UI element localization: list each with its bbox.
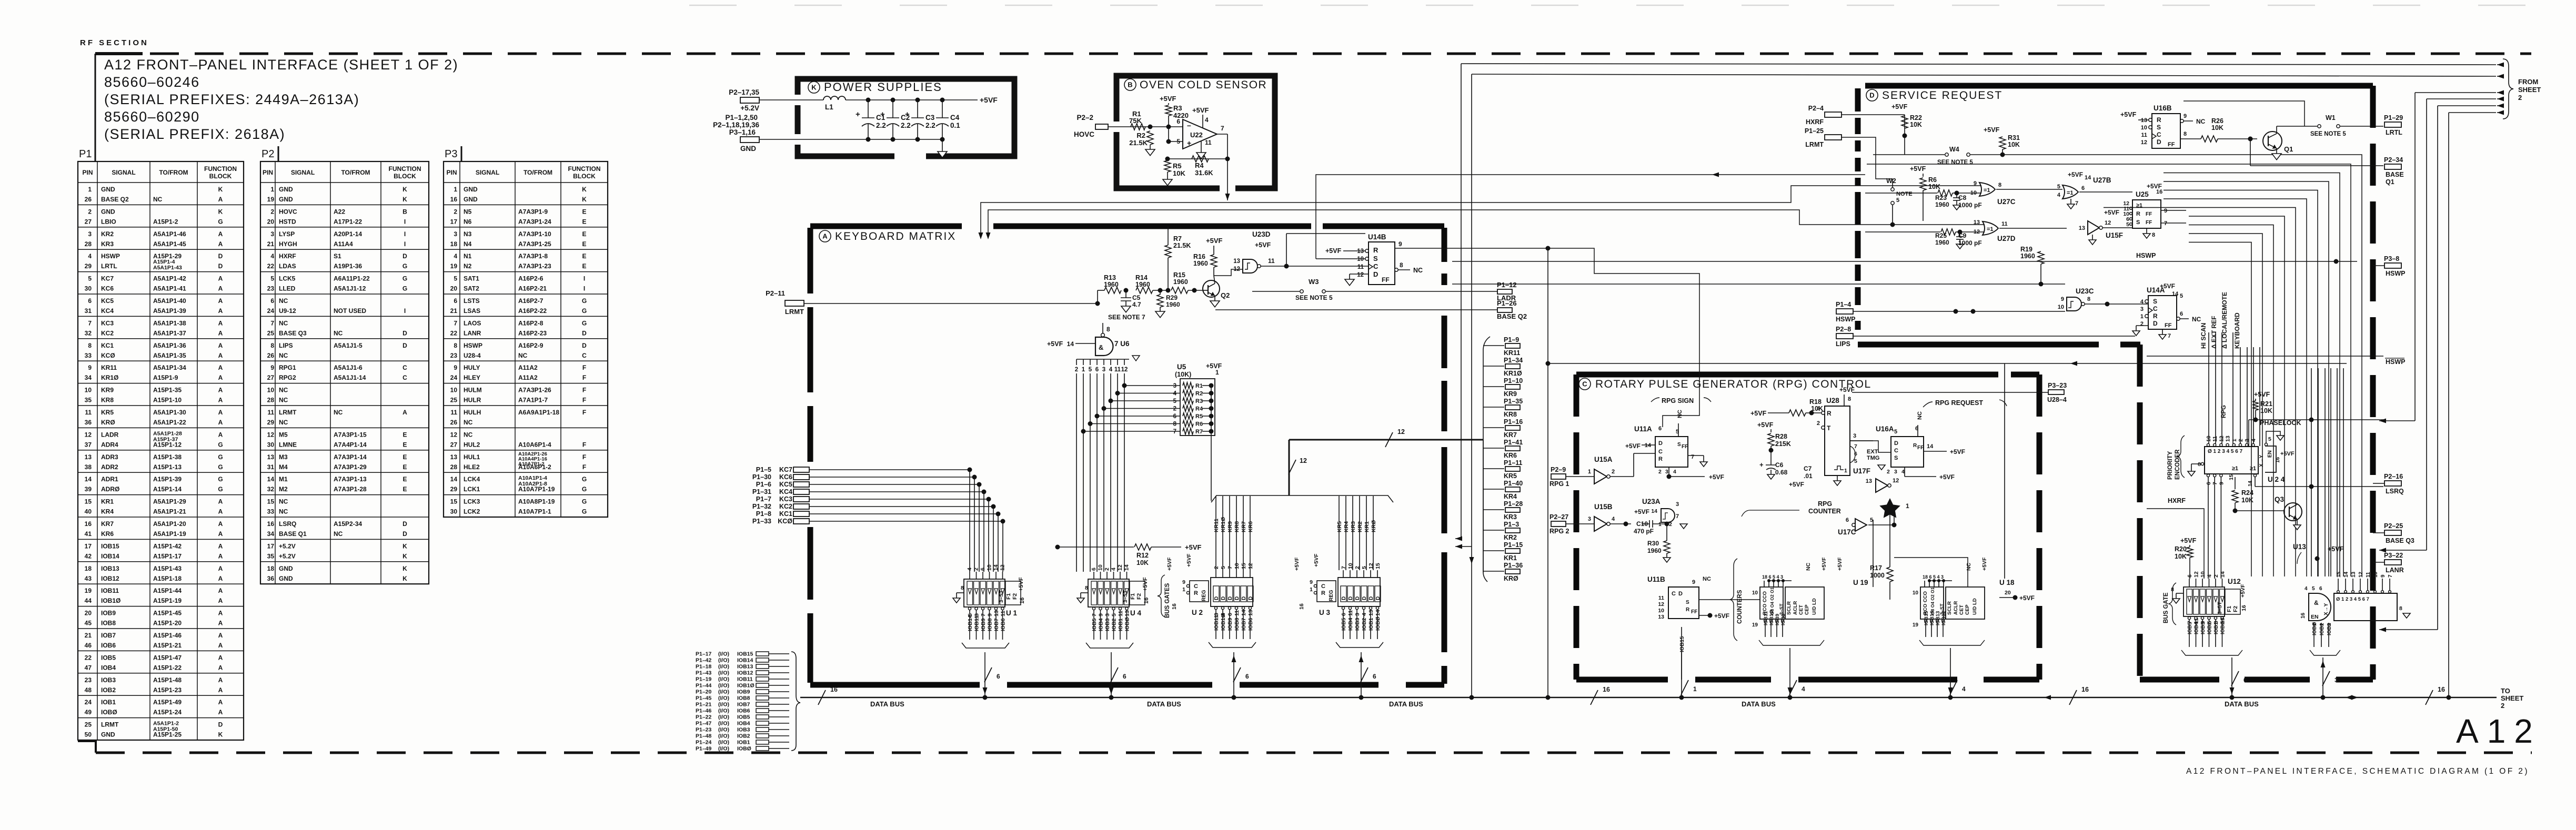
svg-text:+5VF: +5VF	[2240, 584, 2246, 598]
wire U24 pin15 to R24	[2235, 477, 2236, 489]
svg-text:22: 22	[450, 329, 458, 337]
svg-text:IOB5: IOB5	[737, 714, 750, 721]
svg-text:1000 pF: 1000 pF	[1958, 239, 1982, 247]
svg-text:SERVICE REQUEST: SERVICE REQUEST	[1882, 89, 2003, 102]
svg-text:DATA BUS: DATA BUS	[1742, 700, 1776, 708]
svg-text:IOB1: IOB1	[1368, 618, 1374, 631]
svg-text:A5A1J1-12: A5A1J1-12	[334, 285, 366, 292]
U5 common rail	[1211, 386, 1212, 501]
svg-text:A: A	[218, 530, 223, 538]
svg-text:+5VF: +5VF	[1625, 442, 1641, 450]
svg-text:GND: GND	[279, 575, 293, 582]
svg-text:16: 16	[1299, 603, 1305, 610]
svg-text:P1–12: P1–12	[1497, 281, 1517, 289]
svg-text:A15P1-25: A15P1-25	[153, 731, 182, 738]
svg-text:D: D	[402, 252, 407, 260]
svg-text:NC: NC	[1703, 576, 1711, 582]
svg-text:+: +	[856, 110, 860, 119]
svg-text:2.2: 2.2	[901, 122, 911, 129]
svg-text:15: 15	[1241, 563, 1247, 569]
svg-text:11: 11	[1114, 367, 1121, 373]
svg-text:KC7: KC7	[779, 466, 792, 473]
svg-text:2.2: 2.2	[925, 122, 935, 129]
svg-text:R23: R23	[1935, 194, 1947, 201]
svg-text:+5VF: +5VF	[1837, 557, 1843, 571]
svg-text:+5VF: +5VF	[2160, 282, 2175, 290]
svg-text:IOB11: IOB11	[974, 615, 980, 631]
svg-text:12: 12	[2218, 436, 2225, 442]
svg-text:HOVC: HOVC	[1074, 130, 1094, 138]
wire top long risers	[1461, 64, 1462, 539]
svg-text:HULM: HULM	[464, 387, 482, 394]
svg-text:3–ST: 3–ST	[1779, 603, 1784, 615]
svg-text:GND: GND	[101, 208, 115, 215]
svg-text:D: D	[1355, 596, 1361, 600]
svg-text:DATA BUS: DATA BUS	[1389, 700, 1423, 708]
svg-text:46: 46	[85, 642, 92, 649]
svg-text:HSWP: HSWP	[2136, 252, 2156, 259]
svg-text:SCLR: SCLR	[1786, 601, 1792, 615]
function block K POWER SUPPLIES outline	[798, 79, 1014, 156]
svg-text:10: 10	[2141, 125, 2147, 131]
svg-text:=1: =1	[1987, 226, 1994, 232]
svg-text:LCK1: LCK1	[464, 485, 480, 493]
svg-text:8: 8	[961, 585, 964, 591]
function block B OVEN COLD SENSOR outline	[1116, 76, 1275, 188]
svg-text:P3–1,16: P3–1,16	[729, 128, 756, 136]
svg-text:(I/O): (I/O)	[718, 721, 729, 727]
svg-text:5: 5	[88, 275, 92, 282]
svg-text:+5VF: +5VF	[1047, 340, 1063, 348]
svg-text:2: 2	[1669, 521, 1672, 528]
svg-text:P1–22: P1–22	[696, 714, 712, 721]
svg-text:ADR4: ADR4	[101, 441, 118, 448]
svg-text:IOBØ: IOBØ	[1375, 616, 1381, 631]
svg-text:10: 10	[1098, 564, 1104, 571]
svg-text:P1–1,2,50: P1–1,2,50	[725, 114, 758, 122]
svg-text:A16P2-22: A16P2-22	[518, 307, 547, 315]
star symbol	[1879, 498, 1900, 518]
svg-text:(I/O): (I/O)	[718, 727, 729, 733]
svg-text:5: 5	[1173, 398, 1177, 404]
svg-text:6: 6	[1846, 517, 1849, 523]
svg-text:9: 9	[2164, 208, 2167, 214]
svg-text:FF: FF	[2165, 322, 2172, 329]
svg-text:R14: R14	[1135, 274, 1148, 281]
svg-text:E: E	[402, 463, 407, 471]
svg-text:HULH: HULH	[464, 409, 481, 416]
svg-text:8: 8	[270, 342, 274, 349]
svg-text:13: 13	[2079, 225, 2085, 231]
connector table P1	[78, 161, 244, 740]
ground under C4	[942, 139, 943, 151]
svg-text:9: 9	[2183, 113, 2187, 119]
svg-text:KR1: KR1	[1504, 554, 1517, 562]
svg-text:LSAS: LSAS	[464, 307, 480, 315]
svg-text:S: S	[1677, 442, 1681, 448]
svg-text:6: 6	[2206, 482, 2212, 485]
svg-text:7 U6: 7 U6	[1114, 340, 1130, 348]
svg-text:A15P1-35: A15P1-35	[153, 387, 182, 394]
svg-text:U 3: U 3	[1319, 609, 1331, 616]
svg-text:+5VF: +5VF	[1821, 557, 1827, 571]
svg-text:U14B: U14B	[1368, 233, 1386, 241]
svg-text:HXRF: HXRF	[1806, 118, 1824, 126]
gnd stub right of U6	[1132, 356, 1140, 361]
svg-text:GND: GND	[279, 186, 293, 193]
svg-text:IOB6: IOB6	[737, 708, 750, 714]
svg-text:(I/O): (I/O)	[718, 657, 729, 664]
svg-text:I: I	[404, 218, 406, 225]
svg-text:R6: R6	[1195, 421, 1203, 428]
svg-text:(I/O): (I/O)	[718, 702, 729, 708]
svg-text:A5A1P1-19: A5A1P1-19	[153, 530, 186, 538]
svg-text:P2–9: P2–9	[1551, 466, 1566, 473]
svg-text:14: 14	[2343, 571, 2349, 578]
svg-text:A15P1-21: A15P1-21	[153, 642, 182, 649]
svg-text:+5VF: +5VF	[1789, 481, 1804, 488]
svg-text:X→Y: X→Y	[2323, 603, 2329, 615]
svg-text:S: S	[2153, 298, 2157, 305]
svg-text:1000 pF: 1000 pF	[1958, 201, 1982, 209]
svg-text:2: 2	[2140, 321, 2144, 327]
bus slash 16 left	[818, 690, 826, 705]
svg-text:+5VF: +5VF	[1714, 612, 1729, 620]
svg-text:P3: P3	[445, 148, 457, 160]
svg-text:TO/FROM: TO/FROM	[159, 169, 188, 176]
svg-text:LIPS: LIPS	[279, 342, 293, 349]
svg-text:22: 22	[267, 262, 275, 270]
svg-text:13: 13	[1233, 258, 1240, 265]
svg-text:9: 9	[2218, 482, 2225, 485]
svg-text:P2–27: P2–27	[1549, 513, 1568, 521]
svg-text:A7A3P1-24: A7A3P1-24	[518, 218, 551, 225]
svg-text:19: 19	[85, 587, 92, 594]
svg-text:A16P2-9: A16P2-9	[518, 342, 544, 349]
svg-text:A11A2: A11A2	[518, 374, 538, 381]
wire vertical 3810	[2004, 363, 2005, 579]
svg-text:R28: R28	[1775, 433, 1787, 440]
svg-text:3: 3	[454, 230, 457, 238]
wire sheet lines turning down	[2415, 92, 2496, 93]
svg-text:KC5: KC5	[101, 297, 114, 305]
capacitor C2 2.2	[892, 100, 893, 118]
svg-text:11: 11	[2212, 436, 2218, 442]
svg-text:IOB1: IOB1	[1118, 618, 1124, 631]
svg-text:R13: R13	[1104, 274, 1116, 281]
svg-text:A5A1J1-14: A5A1J1-14	[334, 374, 366, 381]
svg-text:F: F	[582, 441, 586, 448]
svg-text:KR9: KR9	[1227, 521, 1233, 532]
svg-text:KR2: KR2	[1504, 534, 1517, 541]
svg-text:U16B: U16B	[2154, 104, 2172, 112]
svg-text:P1–40: P1–40	[1504, 480, 1523, 487]
svg-text:LLED: LLED	[279, 285, 296, 292]
svg-text:5: 5	[1220, 566, 1226, 569]
svg-text:A7A3P1-10: A7A3P1-10	[518, 230, 551, 238]
svg-text:16: 16	[2241, 605, 2247, 611]
svg-text:IOB12: IOB12	[737, 670, 753, 676]
svg-text:8: 8	[2183, 131, 2187, 137]
svg-text:C4: C4	[950, 114, 960, 122]
svg-text:A: A	[218, 275, 223, 282]
svg-text:(I/O): (I/O)	[718, 746, 729, 752]
svg-text:14: 14	[1645, 442, 1652, 449]
svg-text:E: E	[582, 218, 586, 225]
svg-text:C7: C7	[1804, 465, 1812, 472]
svg-text:13: 13	[2141, 117, 2147, 124]
wire KR1 stub	[1483, 550, 1504, 551]
wire cross A to U27C	[981, 186, 1865, 238]
svg-text:BUS GATE: BUS GATE	[2163, 592, 2169, 623]
svg-text:R: R	[1321, 590, 1325, 596]
svg-text:10: 10	[267, 387, 275, 394]
transistor Q1	[2263, 131, 2282, 150]
svg-text:NC: NC	[1805, 562, 1812, 571]
svg-text:2: 2	[1213, 566, 1220, 569]
svg-text:IOBØ: IOBØ	[737, 746, 751, 752]
svg-text:8: 8	[2087, 296, 2090, 302]
svg-text:8: 8	[1085, 585, 1088, 591]
wire U24 upper pin verticals	[2240, 347, 2241, 446]
svg-text:2: 2	[1887, 469, 1890, 475]
U12 bottom pins	[2188, 616, 2190, 619]
svg-text:R4: R4	[1195, 406, 1203, 412]
svg-text:1960: 1960	[1193, 260, 1208, 267]
svg-text:P1–46: P1–46	[696, 708, 712, 714]
svg-text:IOB7: IOB7	[993, 618, 1000, 631]
svg-text:NC: NC	[279, 352, 288, 359]
wire U28-4 row	[1852, 392, 2048, 393]
svg-text:FUNCTION: FUNCTION	[568, 165, 601, 173]
svg-text:IOB15: IOB15	[737, 651, 753, 657]
svg-text:A: A	[218, 708, 223, 716]
svg-text:4: 4	[1817, 406, 1820, 412]
svg-text:I: I	[583, 285, 585, 292]
wire KR8 stub	[1483, 407, 1504, 408]
svg-text:A5A1P1-40: A5A1P1-40	[153, 297, 186, 305]
svg-text:KR4: KR4	[1343, 521, 1350, 532]
wire KR9 stub	[1483, 386, 1504, 387]
svg-text:13: 13	[1247, 610, 1254, 616]
bus drop U19	[1788, 695, 1793, 700]
svg-text:IOB4: IOB4	[101, 664, 116, 671]
svg-text:+5VF: +5VF	[1325, 247, 1342, 255]
svg-text:DATA BUS: DATA BUS	[870, 700, 904, 708]
svg-text:19: 19	[267, 196, 275, 203]
svg-text:KC1: KC1	[101, 342, 114, 349]
svg-text:9: 9	[1692, 579, 1695, 585]
svg-text:A16P2-23: A16P2-23	[518, 329, 547, 337]
bus gate U 1	[964, 579, 1005, 607]
svg-text:P1–35: P1–35	[1504, 398, 1523, 405]
svg-text:P1–44: P1–44	[696, 683, 712, 689]
svg-text:13: 13	[450, 453, 458, 461]
svg-text:F1: F1	[2226, 606, 2232, 612]
svg-text:GND: GND	[279, 196, 293, 203]
svg-text:R17: R17	[1870, 564, 1882, 572]
ground U22 pin11	[1201, 141, 1202, 153]
svg-text:A10A8P1-19: A10A8P1-19	[518, 498, 555, 505]
svg-text:W1: W1	[2326, 114, 2336, 122]
svg-text:P1–41: P1–41	[1504, 439, 1523, 446]
svg-text:(I/O): (I/O)	[718, 664, 729, 670]
svg-text:28: 28	[85, 240, 92, 248]
svg-text:P2–17,35: P2–17,35	[729, 88, 759, 96]
svg-text:D: D	[1362, 596, 1367, 600]
svg-text:R5: R5	[1195, 413, 1203, 420]
svg-text:20: 20	[2005, 590, 2011, 596]
svg-text:PIN: PIN	[263, 169, 273, 176]
svg-text:FF: FF	[1691, 609, 1697, 615]
svg-text:10K: 10K	[1910, 121, 1922, 128]
svg-text:4: 4	[1962, 685, 1966, 693]
svg-text:3: 3	[1173, 383, 1176, 389]
svg-text:D: D	[2153, 320, 2158, 327]
wire verticals right group	[2311, 368, 2312, 576]
wire LADR right segment	[1326, 291, 1497, 292]
svg-text:0.1: 0.1	[950, 122, 960, 129]
svg-text:D: D	[1248, 596, 1254, 600]
svg-text:P1–6: P1–6	[756, 481, 771, 488]
svg-text:FF: FF	[2146, 211, 2152, 217]
svg-text:10: 10	[987, 564, 993, 571]
svg-text:R: R	[1913, 443, 1917, 449]
svg-text:E: E	[402, 485, 407, 493]
svg-text:9: 9	[2380, 574, 2386, 578]
svg-text:R2: R2	[1136, 131, 1145, 139]
svg-text:1: 1	[454, 186, 457, 193]
svg-text:KC2: KC2	[101, 329, 114, 337]
wire Q1 collector top	[2276, 126, 2277, 134]
capacitor C3 2.2	[917, 100, 918, 118]
svg-text:KR11: KR11	[101, 364, 117, 371]
svg-text:2: 2	[270, 208, 274, 215]
svg-text:I: I	[404, 307, 406, 315]
block title B OVEN COLD SENSOR	[1124, 79, 1136, 90]
svg-text:2: 2	[1817, 420, 1820, 427]
svg-text:36: 36	[267, 575, 275, 582]
svg-text:10K: 10K	[1928, 183, 1940, 190]
svg-text:IOB11: IOB11	[1213, 615, 1220, 631]
svg-text:8: 8	[1400, 261, 1403, 269]
svg-text:LRMT: LRMT	[279, 409, 297, 416]
svg-text:LSRQ: LSRQ	[279, 520, 296, 528]
svg-text:10: 10	[85, 387, 92, 394]
connector table P2	[260, 161, 429, 584]
svg-text:A: A	[218, 620, 223, 627]
svg-text:6: 6	[1245, 673, 1249, 680]
function block C RPG CONTROL outline	[1576, 372, 1998, 378]
wire KC5 row	[809, 484, 979, 485]
svg-text:I: I	[583, 275, 585, 282]
svg-text:LRMT: LRMT	[1805, 141, 1824, 148]
svg-text:A12 FRONT–PANEL INTERFACE, SCH: A12 FRONT–PANEL INTERFACE, SCHEMATIC DIA…	[2186, 767, 2529, 776]
wire KR1Ø stub	[1483, 366, 1504, 367]
svg-text:RPG: RPG	[1818, 500, 1832, 508]
svg-text:A: A	[218, 374, 223, 381]
wire U6 input column	[1117, 373, 1118, 572]
bus 12 upper horizontal	[1289, 439, 1483, 441]
svg-text:ACLR: ACLR	[1953, 601, 1959, 615]
svg-text:RF SECTION: RF SECTION	[80, 38, 149, 47]
bus gate U12 group	[2183, 587, 2225, 616]
svg-text:IOB8: IOB8	[987, 618, 993, 631]
svg-text:LSTS: LSTS	[464, 297, 480, 305]
svg-text:P1–33: P1–33	[752, 518, 771, 525]
function block D SERVICE REQUEST outline	[1865, 83, 2373, 89]
svg-text:A5A1P1-42: A5A1P1-42	[153, 275, 186, 282]
svg-text:5: 5	[2180, 293, 2183, 299]
wire Q2 emitter gnd	[1214, 296, 1215, 301]
svg-text:IOB4: IOB4	[1347, 618, 1354, 631]
svg-text:A7A3P1-28: A7A3P1-28	[334, 485, 367, 493]
svg-text:F1: F1	[1130, 593, 1136, 600]
svg-text:+5VF: +5VF	[1294, 557, 1300, 571]
block title A KEYBOARD MATRIX	[819, 230, 831, 242]
svg-text:HYGH: HYGH	[279, 240, 297, 248]
svg-text:A5A1P1-36: A5A1P1-36	[153, 342, 186, 349]
svg-text:2: 2	[2501, 702, 2504, 710]
wire KR columns above U2	[1215, 496, 1216, 570]
bus drop U4	[1109, 695, 1114, 700]
svg-text:P1–19: P1–19	[696, 676, 712, 683]
svg-text:IOBØ: IOBØ	[101, 708, 117, 716]
svg-text:A7A3P1-8: A7A3P1-8	[518, 252, 548, 260]
svg-text:5: 5	[2057, 184, 2060, 190]
svg-text:+5VF: +5VF	[1166, 557, 1173, 571]
resistor R24 10K	[2232, 490, 2238, 503]
wire KR columns above U3	[1339, 496, 1340, 570]
svg-text:75K: 75K	[1129, 117, 1142, 125]
svg-text:P1–42: P1–42	[696, 657, 712, 664]
svg-text:KR9: KR9	[1504, 390, 1517, 398]
svg-text:IOB15: IOB15	[1924, 611, 1929, 625]
gnd U16A	[1878, 465, 1885, 470]
svg-text:27: 27	[85, 218, 92, 225]
svg-text:IOB9: IOB9	[737, 689, 750, 695]
svg-text:A7A4P1-14: A7A4P1-14	[334, 441, 367, 448]
svg-text:Q2: Q2	[1221, 291, 1230, 299]
wire U22 out down exits block	[1227, 159, 1228, 200]
svg-text:U5: U5	[1177, 363, 1186, 371]
wire KC3 row	[809, 499, 989, 500]
svg-text:IOB1: IOB1	[737, 740, 750, 746]
svg-text:11: 11	[1205, 139, 1212, 146]
svg-text:FUNCTION: FUNCTION	[204, 165, 237, 173]
svg-text:U27D: U27D	[1997, 235, 2016, 242]
svg-text:P1–30: P1–30	[752, 473, 771, 481]
svg-text:5: 5	[270, 275, 274, 282]
svg-text:IOB1Ø: IOB1Ø	[1220, 613, 1226, 631]
svg-text:10: 10	[2206, 436, 2212, 442]
svg-text:P1–36: P1–36	[1504, 562, 1523, 569]
svg-text:RPG2: RPG2	[279, 374, 296, 381]
svg-text:L1: L1	[825, 103, 833, 111]
svg-text:GND: GND	[740, 145, 756, 153]
svg-text:SIGNAL: SIGNAL	[291, 169, 315, 176]
svg-text:11: 11	[1347, 610, 1354, 616]
svg-text:PRIORITY: PRIORITY	[2167, 451, 2173, 480]
svg-text:14: 14	[1651, 508, 1657, 514]
svg-text:17: 17	[85, 542, 92, 550]
svg-text:31: 31	[85, 307, 92, 315]
svg-text:D: D	[402, 520, 407, 528]
svg-text:A5A1P1-37: A5A1P1-37	[153, 329, 186, 337]
svg-text:R16: R16	[1193, 253, 1205, 260]
svg-text:14: 14	[2220, 571, 2226, 578]
svg-text:A15P2-34: A15P2-34	[334, 520, 362, 528]
